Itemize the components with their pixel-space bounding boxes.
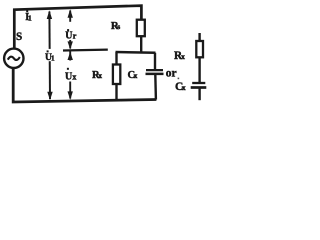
svg-text:x: x bbox=[72, 73, 76, 82]
svg-text:1: 1 bbox=[28, 13, 32, 22]
svg-text:x: x bbox=[98, 71, 102, 80]
svg-text:U: U bbox=[65, 71, 72, 82]
svg-text:S: S bbox=[16, 31, 22, 43]
svg-text:1: 1 bbox=[51, 53, 55, 62]
svg-text:x: x bbox=[181, 52, 185, 61]
svg-text:x: x bbox=[182, 83, 186, 92]
svg-text:or: or bbox=[166, 68, 177, 80]
svg-text:r: r bbox=[73, 32, 77, 41]
svg-text:s: s bbox=[117, 22, 120, 31]
svg-text:U: U bbox=[65, 30, 72, 41]
svg-text:x: x bbox=[134, 71, 138, 80]
